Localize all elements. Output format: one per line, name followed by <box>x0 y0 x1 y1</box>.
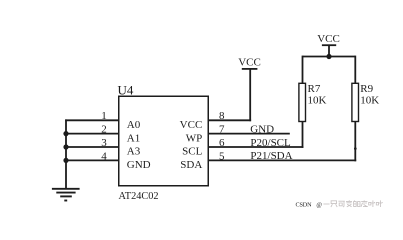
svg-text:6: 6 <box>219 137 225 149</box>
svg-text:3: 3 <box>101 137 107 149</box>
pin 1 number <box>101 110 107 122</box>
net label P20/SCL <box>250 137 291 149</box>
svg-text:A1: A1 <box>127 132 140 144</box>
power symbol VCC (right) <box>322 44 336 46</box>
part value AT24C02 <box>119 191 159 202</box>
junction dot tee <box>326 54 331 59</box>
svg-text:2: 2 <box>101 124 107 136</box>
pin 6 number <box>219 137 225 149</box>
svg-text:VCC: VCC <box>238 57 261 69</box>
resistor R7 <box>299 83 306 121</box>
pin 5 wire <box>208 159 357 161</box>
net label GND <box>250 123 274 135</box>
svg-text:GND: GND <box>127 159 151 171</box>
wire R9 bottom lead <box>354 122 356 162</box>
junction dot pin4 <box>63 158 68 163</box>
net label VCC (middle) <box>238 57 261 69</box>
svg-text:GND: GND <box>250 123 274 135</box>
svg-text:5: 5 <box>219 150 225 162</box>
pin name WP <box>186 132 203 144</box>
pin 3 wire <box>65 146 119 148</box>
wire VCC riser <box>249 69 251 121</box>
left bus wire to ground <box>65 119 67 188</box>
watermark CSDN <box>296 201 323 208</box>
value 10K (R9) <box>360 95 379 107</box>
watermark CJK glyph strokes <box>323 200 382 207</box>
net label P21/SDA <box>250 150 292 162</box>
pin 7 number <box>219 124 225 136</box>
value 10K (R7) <box>308 95 327 107</box>
pin name A0 <box>127 119 141 131</box>
wire R7 top lead <box>302 56 304 84</box>
svg-text:10K: 10K <box>360 95 379 107</box>
svg-text:SDA: SDA <box>180 159 202 171</box>
svg-text:7: 7 <box>219 124 225 136</box>
svg-text:R7: R7 <box>308 83 321 95</box>
pin 1 wire <box>65 119 119 121</box>
pin 4 wire <box>65 159 119 161</box>
pin 8 number <box>219 110 225 122</box>
label R7 <box>308 83 321 95</box>
pin 3 number <box>101 137 107 149</box>
svg-text:WP: WP <box>186 132 203 144</box>
svg-text:1: 1 <box>101 110 107 122</box>
pin 7 wire <box>208 133 290 135</box>
svg-text:VCC: VCC <box>317 33 340 45</box>
power symbol VCC (middle) <box>242 68 258 70</box>
net label VCC (right) <box>317 33 340 45</box>
pin 5 number <box>219 150 225 162</box>
svg-text:4: 4 <box>101 150 107 162</box>
junction dot pin3 <box>63 144 68 149</box>
svg-text:VCC: VCC <box>180 119 203 131</box>
svg-text:A3: A3 <box>127 146 141 158</box>
wire R9 top lead <box>354 56 356 84</box>
pin name GND <box>127 159 151 171</box>
svg-text:P20/SCL: P20/SCL <box>250 137 291 149</box>
pin name SCL <box>182 146 202 158</box>
wire R7 bottom lead <box>302 122 304 148</box>
refdes U4 <box>118 82 134 97</box>
svg-text:8: 8 <box>219 110 225 122</box>
svg-text:R9: R9 <box>360 83 373 95</box>
svg-text:10K: 10K <box>308 95 327 107</box>
svg-text:A0: A0 <box>127 119 141 131</box>
pin name A3 <box>127 146 141 158</box>
pin 8 wire <box>208 119 252 121</box>
svg-text:@: @ <box>316 201 322 208</box>
junction dot pin2 <box>63 131 68 136</box>
pin 2 wire <box>65 133 119 135</box>
svg-text:U4: U4 <box>118 82 134 97</box>
IC U4 body <box>119 96 209 186</box>
wire top tee <box>303 56 356 58</box>
pin 2 number <box>101 124 107 136</box>
pin name VCC <box>180 119 203 131</box>
svg-text:CSDN: CSDN <box>296 201 313 208</box>
label R9 <box>360 83 373 95</box>
pin name SDA <box>180 159 202 171</box>
pin 6 wire <box>208 146 304 148</box>
wire VCC stub (right) <box>328 45 330 57</box>
ground <box>52 189 80 201</box>
svg-text:P21/SDA: P21/SDA <box>250 150 292 162</box>
svg-text:AT24C02: AT24C02 <box>119 191 159 202</box>
resistor R9 <box>352 83 359 121</box>
pin 4 number <box>101 150 107 162</box>
svg-text:SCL: SCL <box>182 146 202 158</box>
junction tick on R9 lead <box>354 147 357 150</box>
pin name A1 <box>127 132 140 144</box>
